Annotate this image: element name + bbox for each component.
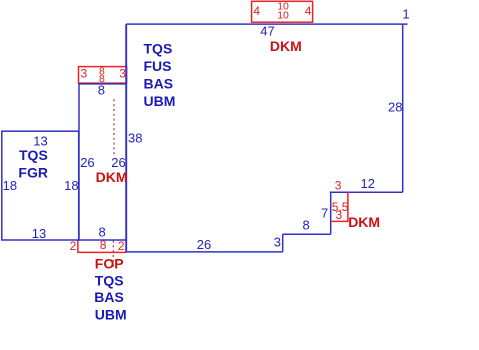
svg-text:DKM: DKM: [96, 169, 128, 185]
svg-text:FGR: FGR: [18, 165, 48, 181]
svg-text:26: 26: [80, 155, 94, 170]
svg-text:FOP: FOP: [95, 255, 124, 271]
dashed red reference line lower segment: [112, 241, 114, 269]
svg-text:FUS: FUS: [144, 58, 172, 74]
svg-text:3: 3: [336, 208, 343, 222]
svg-text:4: 4: [253, 4, 260, 18]
svg-text:2: 2: [118, 239, 125, 253]
svg-text:26: 26: [111, 155, 125, 170]
wire right edge: [402, 24, 404, 192]
svg-text:DKM: DKM: [270, 38, 302, 54]
svg-text:8: 8: [303, 218, 310, 233]
svg-text:3: 3: [119, 67, 126, 81]
red box bottom (FOP) left+bottom edges: [78, 240, 126, 252]
wire bottom long edge y252: [126, 251, 283, 253]
svg-text:13: 13: [32, 226, 46, 241]
svg-text:4: 4: [305, 4, 312, 18]
svg-text:28: 28: [388, 100, 402, 115]
wire step2 horizontal y234: [283, 233, 331, 235]
svg-text:47: 47: [260, 24, 274, 39]
wire step1 horizontal y191: [330, 191, 403, 193]
svg-text:12: 12: [361, 176, 375, 191]
svg-text:1: 1: [402, 7, 409, 22]
svg-text:UBM: UBM: [144, 93, 176, 109]
red box middle top: [79, 67, 127, 84]
svg-text:BAS: BAS: [144, 76, 174, 92]
svg-text:2: 2: [70, 239, 77, 253]
annex left rectangle (blue): [2, 131, 79, 240]
svg-text:TQS: TQS: [144, 41, 173, 57]
wire left edge x126: [125, 24, 127, 252]
svg-text:8: 8: [100, 238, 107, 252]
svg-text:TQS: TQS: [95, 273, 124, 289]
svg-text:DKM: DKM: [348, 214, 380, 230]
svg-text:7: 7: [321, 206, 328, 221]
svg-text:BAS: BAS: [94, 289, 124, 305]
dashed red reference line upper segment: [113, 99, 115, 155]
wire step2 vertical x283: [282, 234, 284, 252]
building outline main (blue polygon): [126, 24, 407, 252]
svg-text:18: 18: [64, 178, 78, 193]
svg-text:18: 18: [3, 178, 17, 193]
red box small right (DKM) right+bottom edges: [331, 192, 348, 221]
svg-text:38: 38: [128, 131, 142, 146]
svg-text:26: 26: [197, 237, 211, 252]
svg-text:3: 3: [335, 178, 342, 192]
svg-text:10: 10: [277, 10, 289, 22]
svg-text:8: 8: [99, 73, 105, 85]
svg-text:UBM: UBM: [95, 306, 127, 322]
wire step1 vertical x330: [330, 192, 332, 234]
svg-text:TQS: TQS: [19, 147, 48, 163]
svg-text:3: 3: [81, 67, 88, 81]
annex middle rectangle (blue): [79, 84, 126, 240]
red box top (DKM overhang): [252, 1, 313, 22]
wire top edge: [126, 23, 407, 25]
svg-text:3: 3: [274, 235, 281, 250]
